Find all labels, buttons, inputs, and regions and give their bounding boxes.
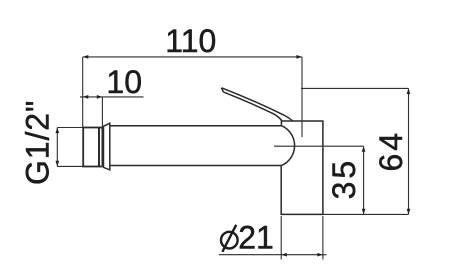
svg-text:35: 35: [326, 158, 362, 200]
lever top edge: [222, 88, 293, 121]
arrow G1/2 top: [55, 128, 59, 134]
arrow 110 left: [83, 55, 89, 59]
arrow 35 bottom: [362, 209, 366, 215]
arrow 64 bottom: [407, 209, 411, 215]
extension line G1/2 top: [57, 127, 83, 129]
barrel bottom edge: [110, 165, 281, 167]
diameter symbol: [221, 225, 238, 252]
extension line d21 left: [280, 216, 282, 260]
dim line 35: [363, 146, 365, 214]
lever bottom edge: [223, 92, 282, 121]
arrow 10 left: [83, 95, 89, 99]
svg-text:64: 64: [373, 130, 409, 172]
extension line G1/2 bottom: [57, 165, 83, 167]
dim line 110: [83, 56, 302, 58]
threaded inlet G1/2: [83, 128, 102, 167]
extension line right of 10: [101, 97, 103, 128]
dim line G1/2: [56, 128, 58, 167]
svg-text:110: 110: [165, 23, 216, 59]
extension line d21 right: [322, 216, 324, 260]
extension line left (110/10): [82, 57, 84, 128]
arrow 110 right: [296, 55, 302, 59]
svg-text:G1/2": G1/2": [19, 100, 55, 185]
lever tip face: [222, 88, 224, 92]
extension line right of 110 / centerline: [301, 57, 303, 137]
dim line diameter 21: [219, 254, 327, 256]
head cap arc: [281, 126, 294, 166]
top extension line of 64: [301, 87, 409, 89]
cone flange: [104, 123, 110, 170]
valve body outline: [281, 121, 323, 214]
head centerline / extension of 35: [274, 145, 364, 147]
dim line 64: [408, 88, 410, 214]
bottom extension line (35/64): [323, 213, 409, 215]
arrow 64 top: [407, 88, 411, 94]
barrel top edge: [110, 125, 282, 127]
arrow 10 right: [97, 95, 103, 99]
arrow d21 left: [281, 253, 287, 257]
arrow d21 right: [317, 253, 323, 257]
dim line 10: [80, 96, 144, 98]
arrow 35 top: [362, 146, 366, 152]
svg-text:21: 21: [238, 220, 274, 256]
arrow G1/2 bottom: [55, 161, 59, 167]
svg-text:10: 10: [106, 64, 142, 100]
